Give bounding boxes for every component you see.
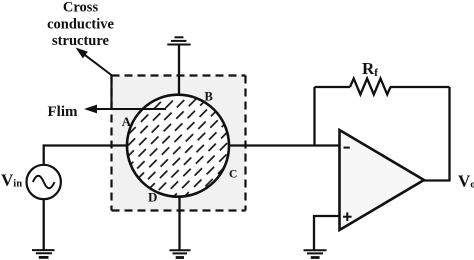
svg-text:A: A [122, 115, 132, 129]
svg-text:B: B [205, 90, 213, 104]
wire: feedback top right segment [390, 86, 450, 88]
op-amp minus sign [344, 147, 350, 149]
op-amp plus sign [343, 212, 352, 221]
resistor R_f [350, 79, 391, 95]
ground (op-amp non-inverting input) [304, 250, 327, 257]
wire: feedback top left segment [315, 86, 351, 88]
wire: non-inverting input to ground [314, 216, 340, 250]
wire: op-amp output [424, 179, 451, 181]
op-amp U1 [340, 130, 425, 230]
svg-text:Rf: Rf [362, 59, 378, 79]
wire: node D to bottom ground [178, 197, 180, 250]
AC source V_in [27, 165, 61, 199]
svg-text:structure: structure [52, 33, 109, 49]
solid segment on box left edge (corner to Flim line) [110, 76, 112, 110]
Flim leader arrow [84, 105, 166, 114]
ground (below V_in) [32, 250, 55, 257]
label: Cross conductive structure [47, 0, 114, 49]
wire: top ground stem to node B [178, 45, 180, 95]
svg-text:Vin: Vin [1, 171, 22, 190]
wire: source bottom to ground [43, 199, 45, 249]
svg-text:Cross: Cross [63, 0, 99, 16]
svg-text:Flim: Flim [48, 104, 78, 120]
film circle (hatched sensing film) [127, 95, 229, 197]
wire: node C to op-amp inverting input [229, 144, 340, 146]
svg-text:C: C [229, 169, 237, 181]
wire: feedback left vertical [313, 87, 315, 146]
ground (bottom centre) [170, 250, 191, 257]
wire: source top to main node [44, 146, 128, 165]
svg-text:Vo: Vo [458, 172, 474, 191]
svg-text:D: D [148, 190, 157, 205]
ground (top, inverted) [167, 37, 190, 44]
wire: feedback right vertical [448, 87, 450, 181]
cross conductive structure: dashed box [112, 76, 246, 211]
leader arrow to structure label [76, 48, 113, 76]
svg-text:conductive: conductive [47, 17, 114, 33]
